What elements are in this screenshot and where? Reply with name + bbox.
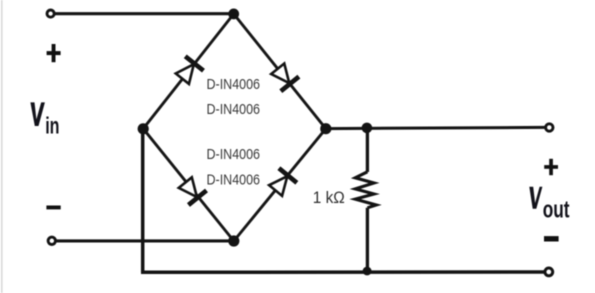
terminal T3 (top-right output)	[546, 124, 553, 131]
svg-text:out: out	[543, 197, 570, 224]
label Vout	[529, 187, 569, 224]
svg-text:D-IN4006: D-IN4006	[207, 101, 261, 118]
wire bridge edge A-D (node A top to node D right)	[234, 14, 326, 129]
terminal T4 (bottom-right output)	[545, 268, 553, 276]
terminal T2 (bottom-left input)	[48, 237, 55, 244]
wire bridge edge A-B (node A top to node B left)	[143, 14, 234, 129]
terminal T1 (top-left input)	[47, 10, 54, 17]
label plus sign (input polarity +)	[47, 44, 61, 62]
diode D1 (D-IN4006, left-top arm, pointing to node A)	[173, 56, 203, 86]
node D (bridge right junction)	[320, 123, 331, 134]
label plus sign (output polarity +)	[544, 159, 558, 175]
label minus sign (input polarity -)	[46, 206, 60, 210]
svg-text:1 kΩ: 1 kΩ	[313, 188, 345, 207]
node C (bridge bottom junction)	[228, 235, 239, 246]
wire bottom rail (left drop to T4)	[141, 270, 545, 274]
wire top rail (T1 to node A)	[53, 12, 234, 15]
svg-text:D-IN4006: D-IN4006	[207, 76, 261, 93]
wire output rail (node D to T3)	[326, 127, 546, 128]
label minus sign (output polarity -)	[544, 236, 559, 241]
node A (bridge top junction)	[228, 9, 239, 20]
diode D2 (D-IN4006, top-right arm, pointing to node D)	[269, 62, 299, 92]
label Vin	[30, 102, 59, 138]
wire bridge edge C-D (node C bottom to node D right)	[234, 129, 326, 241]
wire bottom-left input (T2 to node C)	[54, 239, 234, 242]
svg-text:in: in	[45, 112, 59, 138]
node B (bridge left junction)	[138, 123, 149, 134]
node F (resistor bottom junction on rail)	[363, 267, 372, 276]
wire bridge edge B-C (node B left to node C bottom)	[143, 129, 234, 241]
wire left vertical drop (node B down to bottom rail)	[141, 129, 145, 273]
node E (resistor top junction)	[362, 123, 373, 134]
svg-text:D-IN4006: D-IN4006	[207, 171, 261, 188]
resistor R1 1 kOhm (vertical, load)	[355, 128, 376, 272]
diode D4 (D-IN4006, bottom-right arm, pointing to node D)	[267, 168, 297, 198]
left page edge line	[1, 0, 3, 293]
diode D3 (D-IN4006, left-bottom arm, pointing to node C)	[176, 175, 206, 205]
svg-text:D-IN4006: D-IN4006	[207, 146, 261, 163]
